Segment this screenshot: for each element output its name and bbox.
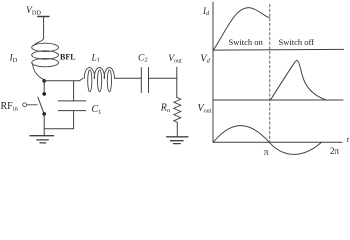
wire Ro to ground (176, 122, 178, 136)
switch S1 arm (38, 97, 44, 113)
capacitor C1 plates (58, 101, 86, 111)
svg-text:π: π (264, 148, 269, 156)
wire node A down to switch (43, 81, 45, 94)
inductor L1 (84, 68, 114, 92)
curve Vout sine (213, 126, 321, 155)
svg-text:Switch on: Switch on (229, 37, 264, 47)
graph t axis (213, 141, 342, 143)
inductor BFL (32, 38, 59, 80)
wire RFin to switch (27, 104, 38, 106)
wire C2 to Vout node (149, 77, 177, 79)
svg-text:BFL: BFL (60, 53, 76, 62)
wire L1 to C2 (115, 77, 142, 79)
capacitor C1 top lead (73, 81, 75, 101)
wire switch to ground (43, 114, 45, 136)
graph vertical axis (212, 2, 214, 142)
resistor Ro (174, 98, 181, 123)
wire node A to L1 (44, 78, 83, 80)
RFin terminal circle (23, 103, 27, 107)
svg-text:Switch off: Switch off (279, 37, 315, 47)
wire C1 to ground stem (44, 128, 73, 130)
capacitor C2 plates (141, 68, 148, 93)
ground right (167, 137, 188, 144)
ground left (30, 136, 53, 143)
wire VDD to BFL (43, 17, 45, 39)
capacitor C1 bottom lead (73, 111, 75, 129)
switch S1 bottom terminal dot (42, 112, 46, 116)
curve Vd waveform (271, 60, 326, 99)
switch S1 top terminal dot (42, 92, 46, 96)
power VDD bar (38, 16, 49, 18)
svg-text:2π: 2π (330, 146, 340, 156)
wire Vout stub (176, 67, 178, 98)
dashed switch boundary (269, 4, 271, 142)
graph Vd baseline (213, 99, 343, 101)
graph Id baseline (213, 48, 344, 51)
curve Id waveform (214, 8, 270, 50)
node A junction dot (42, 79, 46, 83)
